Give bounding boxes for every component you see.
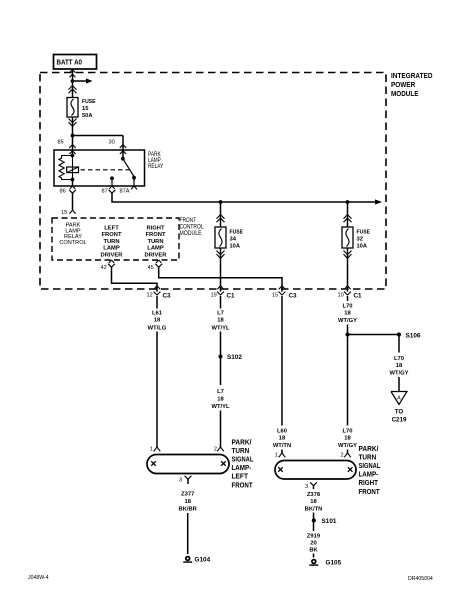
inline connector double chevron below fuse F15: [69, 119, 77, 123]
svg-text:1: 1: [275, 453, 278, 459]
svg-text:3: 3: [179, 478, 182, 484]
wire L61 lower segment: [156, 332, 158, 448]
wire to off-page connector A: [398, 377, 400, 392]
wire splice to relay pin 30: [73, 135, 124, 137]
svg-text:87A: 87A: [120, 189, 130, 195]
svg-text:2: 2: [340, 453, 343, 459]
svg-text:12: 12: [147, 293, 153, 299]
svg-text:MODULE: MODULE: [180, 231, 202, 237]
svg-text:MODULE: MODULE: [391, 89, 419, 98]
inline connector above fuse F34: [217, 215, 225, 219]
relay coil resistor zigzag: [59, 156, 73, 180]
svg-text:FUSE: FUSE: [357, 230, 371, 236]
wire L70 below branch: [347, 335, 349, 426]
wire L60 from C3 pin 15: [281, 296, 283, 426]
svg-text:18: 18: [344, 311, 351, 317]
wire Z377 to ground: [187, 513, 189, 554]
svg-text:15: 15: [82, 106, 89, 112]
fuse F34 10A: [215, 227, 226, 248]
svg-text:L7: L7: [217, 311, 224, 317]
svg-text:FUSE: FUSE: [82, 99, 96, 105]
arrow bus continues right: [375, 199, 382, 204]
svg-text:FRONT: FRONT: [180, 218, 197, 224]
wire L7 below splice: [220, 357, 222, 386]
integrated power module dashed outline: [40, 73, 386, 290]
battery feed box BATT A0: [54, 55, 97, 70]
svg-text:DRIVER: DRIVER: [101, 252, 124, 258]
svg-text:85: 85: [58, 140, 64, 146]
svg-text:WT/YL: WT/YL: [211, 325, 229, 331]
svg-text:DR405004: DR405004: [408, 576, 433, 582]
svg-text:L60: L60: [277, 429, 287, 435]
wire bus down to fuse F34: [220, 202, 222, 227]
bulb element right lamp right: [348, 467, 353, 472]
svg-text:15: 15: [272, 293, 278, 299]
wire FCM 42 to connector C3 pin 12: [112, 267, 158, 291]
svg-text:20: 20: [310, 541, 316, 547]
relay internal dashed actuation line: [81, 169, 130, 171]
svg-text:CONTROL: CONTROL: [59, 240, 86, 246]
svg-text:Z377: Z377: [181, 492, 194, 498]
svg-text:L61: L61: [152, 311, 163, 317]
svg-text:BK: BK: [309, 548, 318, 554]
wire relay 86 to FCM pin 15: [72, 193, 74, 210]
svg-text:WT/LG: WT/LG: [148, 325, 167, 331]
svg-text:RIGHT: RIGHT: [146, 226, 164, 232]
svg-text:LAMP: LAMP: [147, 246, 164, 252]
front control module dashed outline: [52, 218, 179, 260]
relay switch arm: [123, 159, 134, 177]
svg-text:C1: C1: [354, 293, 363, 300]
svg-text:32: 32: [357, 237, 363, 243]
fuse F32 10A: [342, 227, 353, 248]
relay coil element: [72, 156, 74, 180]
svg-text:FRONT: FRONT: [232, 480, 254, 489]
svg-text:86: 86: [60, 189, 66, 195]
svg-text:TURN: TURN: [147, 239, 163, 245]
svg-text:G104: G104: [195, 557, 211, 564]
inline connector below fuse F32: [344, 251, 352, 255]
svg-text:18: 18: [217, 318, 224, 324]
svg-text:J048W-4: J048W-4: [28, 575, 49, 581]
svg-text:L70: L70: [394, 356, 404, 362]
svg-text:S101: S101: [322, 518, 337, 525]
svg-text:TURN: TURN: [103, 239, 119, 245]
node splice bus to fuse F34: [219, 200, 223, 204]
relay coil branch node top: [71, 154, 75, 158]
wire arrow stub to other circuits: [73, 80, 87, 82]
svg-text:18: 18: [279, 436, 286, 442]
splice S106: [397, 332, 401, 336]
svg-text:C1: C1: [227, 293, 236, 300]
park turn signal lamp left front body: [147, 455, 229, 474]
splice S102: [218, 354, 222, 358]
svg-text:CONTROL: CONTROL: [180, 224, 205, 230]
inline connector above fuse F32: [344, 215, 352, 219]
svg-text:Z919: Z919: [307, 534, 321, 540]
svg-text:50A: 50A: [82, 113, 93, 119]
svg-text:WT/YL: WT/YL: [211, 404, 229, 410]
svg-text:TO: TO: [395, 409, 404, 416]
bulb element right lamp left: [278, 467, 283, 472]
svg-text:WT/GY: WT/GY: [390, 371, 409, 377]
svg-text:L70: L70: [343, 429, 353, 435]
svg-text:LEFT: LEFT: [104, 226, 119, 232]
fuse F15 50A: [67, 98, 78, 118]
wire L61 upper segment: [156, 296, 158, 309]
wire fuse F32 to connector C1 pin 10: [347, 248, 349, 292]
wire from BATT A0 down into IPM: [72, 69, 74, 98]
bulb element right: [221, 461, 226, 466]
relay switch common node pin 30: [121, 157, 125, 161]
node splice below battery feed: [71, 79, 75, 83]
wire FCM 45 to connector C3 pin 15: [159, 267, 282, 291]
ground G104: [186, 557, 190, 561]
svg-text:18: 18: [154, 318, 161, 324]
svg-text:L70: L70: [343, 304, 353, 310]
wire L7 to left lamp pin 2: [220, 411, 222, 448]
svg-text:S106: S106: [406, 333, 421, 340]
svg-text:18: 18: [344, 436, 351, 442]
svg-text:A: A: [397, 396, 401, 402]
svg-text:1: 1: [150, 447, 153, 453]
svg-text:BK/TN: BK/TN: [305, 507, 323, 513]
svg-text:45: 45: [148, 265, 154, 271]
wire fuse F34 to connector C1 pin 19: [220, 248, 222, 292]
wire relay 87 to fuses bus: [112, 193, 376, 202]
wire splice to relay pin 85: [72, 136, 74, 156]
wire Z378 to splice S101: [313, 513, 315, 519]
svg-text:18: 18: [396, 363, 403, 369]
wire L70 to splice S106: [347, 325, 349, 335]
wire Z919 from splice: [313, 523, 315, 532]
wire splice to S106: [348, 334, 400, 336]
svg-text:Z378: Z378: [307, 492, 321, 498]
relay coil branch node bottom: [71, 178, 75, 182]
ground G105: [312, 560, 316, 564]
inline connector double chevron above fuse F15: [69, 86, 77, 90]
svg-text:BK/BR: BK/BR: [179, 507, 198, 513]
svg-text:FRONT: FRONT: [146, 232, 166, 238]
svg-text:15: 15: [61, 210, 67, 216]
wire L70 branch down from S106: [398, 335, 400, 353]
wire L7 upper segment: [220, 296, 222, 309]
node splice bus to fuse F32: [346, 200, 350, 204]
inline connector below fuse F34: [217, 251, 225, 255]
svg-text:WT/GY: WT/GY: [338, 443, 357, 449]
svg-text:C3: C3: [289, 293, 298, 300]
park turn signal lamp right front body: [275, 461, 356, 480]
svg-text:C3: C3: [163, 293, 172, 300]
wire L70 from C1 pin 10: [347, 296, 349, 301]
svg-text:30: 30: [109, 140, 115, 146]
svg-text:L7: L7: [217, 389, 224, 395]
svg-text:FRONT: FRONT: [102, 232, 122, 238]
relay contact node 87A: [132, 176, 136, 180]
relay contact node 87: [110, 176, 114, 180]
svg-text:87: 87: [102, 189, 108, 195]
svg-text:10A: 10A: [357, 244, 368, 250]
node splice feeding relay pins 85 and 30: [71, 134, 75, 138]
wire bus down to fuse F32: [347, 202, 349, 227]
splice S101: [312, 518, 316, 522]
svg-text:WT/GY: WT/GY: [338, 318, 357, 324]
pin 86 of park lamp relay: [72, 180, 74, 187]
svg-text:18: 18: [217, 397, 224, 403]
svg-text:10: 10: [338, 293, 344, 299]
splice S106 branch node: [345, 332, 349, 336]
svg-text:34: 34: [230, 237, 237, 243]
svg-text:18: 18: [184, 499, 191, 505]
svg-text:WT/TN: WT/TN: [273, 443, 291, 449]
svg-text:DRIVER: DRIVER: [145, 252, 168, 258]
svg-text:POWER: POWER: [391, 80, 416, 89]
svg-text:2: 2: [214, 447, 217, 453]
svg-text:G105: G105: [326, 560, 342, 567]
svg-text:BATT A0: BATT A0: [57, 58, 83, 67]
svg-text:RELAY: RELAY: [148, 164, 163, 170]
svg-text:10A: 10A: [230, 244, 241, 250]
svg-text:FUSE: FUSE: [230, 230, 244, 236]
svg-text:18: 18: [310, 499, 317, 505]
svg-text:19: 19: [211, 293, 217, 299]
svg-text:C219: C219: [392, 417, 407, 424]
wire Z919 to ground: [313, 554, 315, 558]
wire L7 to splice S102: [220, 332, 222, 357]
svg-text:S102: S102: [227, 354, 242, 361]
svg-text:LAMP: LAMP: [103, 246, 120, 252]
park lamp relay box: [54, 150, 145, 186]
svg-text:3: 3: [305, 484, 308, 490]
svg-text:INTEGRATED: INTEGRATED: [391, 71, 433, 80]
bulb element left: [151, 461, 156, 466]
connector pair at IPM boundary for battery feed: [70, 70, 73, 73]
svg-text:42: 42: [101, 265, 107, 271]
off-page connector triangle A: [391, 392, 407, 405]
svg-text:FRONT: FRONT: [359, 487, 381, 496]
